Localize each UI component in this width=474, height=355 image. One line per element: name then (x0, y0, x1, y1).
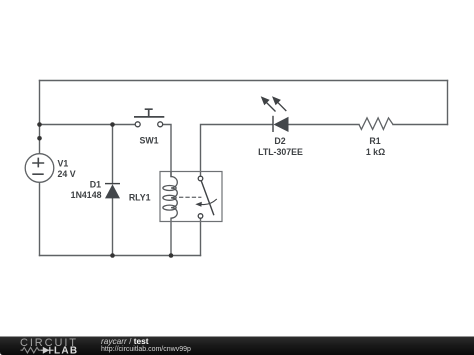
wire top horizontal (40, 80, 448, 82)
junction node at left/SW1 row (37, 122, 42, 127)
logo diode (41, 347, 54, 354)
wire node to SW1 (40, 124, 136, 126)
svg-text:D1: D1 (90, 179, 101, 189)
svg-text:R1: R1 (369, 136, 380, 146)
wire D1 branch top (112, 125, 114, 184)
wire right vertical (447, 81, 449, 125)
svg-text:D2: D2 (274, 136, 285, 146)
junction node D1 top (110, 122, 115, 127)
wire SW1 to relay coil (163, 125, 171, 177)
wire bottom horizontal (40, 255, 201, 257)
wire D1 branch bottom (112, 198, 114, 255)
wire relay switch bottom (200, 218, 202, 255)
resistor R1 (359, 118, 393, 129)
svg-text:SW1: SW1 (139, 136, 158, 146)
diode D1 (105, 184, 120, 199)
svg-text:V1: V1 (58, 159, 69, 169)
relay dashed link (179, 196, 201, 198)
svg-text:1N4148: 1N4148 (71, 190, 102, 200)
voltage source V1 (25, 154, 54, 183)
wire right to R1 (393, 124, 448, 126)
svg-text:raycarr / test: raycarr / test (101, 336, 149, 346)
svg-text:24 V: 24 V (58, 169, 76, 179)
LED D2 (261, 96, 289, 132)
svg-text:1 kΩ: 1 kΩ (366, 147, 385, 157)
relay coil (163, 172, 177, 219)
svg-text:RLY1: RLY1 (129, 193, 151, 203)
relay switch arm (198, 176, 214, 218)
relay actuate arrow (195, 199, 217, 207)
junction node coil bottom (169, 253, 174, 258)
footer bar (0, 337, 474, 355)
light arrow left (265, 101, 276, 112)
svg-text:http://circuitlab.com/cnwv99p: http://circuitlab.com/cnwv99p (101, 346, 191, 353)
wire R1 to D2 (289, 124, 360, 126)
light arrow right (276, 100, 287, 111)
wire relay coil bottom (170, 218, 172, 255)
node terminal V1 top (37, 136, 42, 141)
wire left vertical upper (39, 81, 41, 154)
svg-text:LTL-307EE: LTL-307EE (258, 147, 303, 157)
relay RLY1 box (160, 172, 222, 222)
switch SW1 (134, 109, 164, 127)
wire D2 to relay switch top (201, 125, 273, 177)
wire left vertical lower (39, 183, 41, 256)
svg-text:LAB: LAB (54, 346, 78, 355)
logo resistor zigzag (21, 347, 42, 353)
junction node D1 bottom (110, 253, 115, 258)
